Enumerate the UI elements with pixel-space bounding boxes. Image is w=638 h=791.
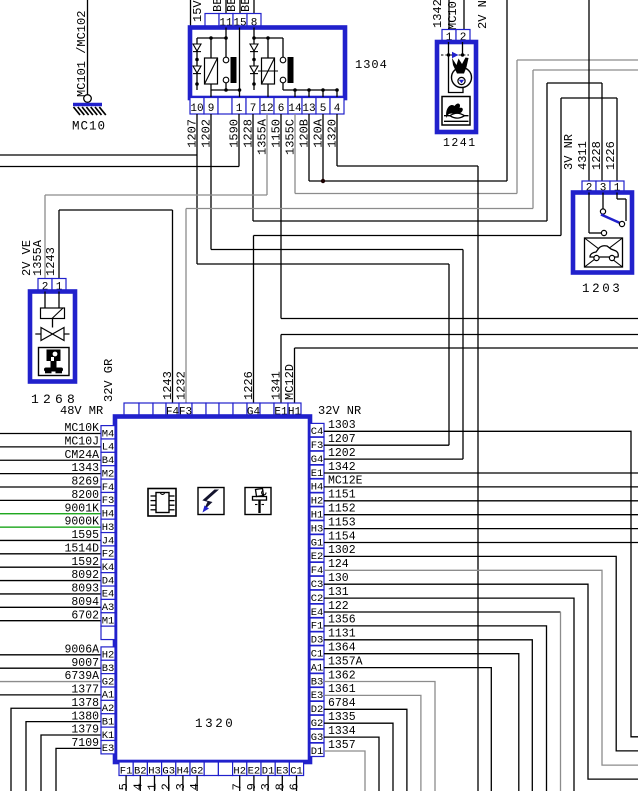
svg-text:MC10: MC10	[72, 120, 106, 134]
wire 8094 to pin A3	[0, 596, 115, 614]
wire 124 from pin F4	[310, 558, 638, 765]
ground label MC10	[72, 120, 106, 134]
label BB	[239, 0, 253, 12]
svg-text:9001K: 9001K	[64, 502, 99, 515]
svg-text:19: 19	[245, 783, 259, 791]
svg-text:14: 14	[188, 783, 202, 791]
svg-text:C1: C1	[311, 649, 324, 661]
wire labels 1207 1202 1590 1228 1355A 1150 1355C 120B 120A 1320	[186, 118, 340, 155]
ECU bottom empty pin slot	[218, 762, 232, 776]
svg-text:C4: C4	[311, 426, 324, 438]
svg-text:1592: 1592	[71, 556, 99, 569]
svg-text:13: 13	[302, 103, 315, 115]
wire 1357A from pin A1	[310, 655, 491, 791]
wire CM24A to pin B4	[0, 449, 115, 467]
ECU bottom empty pin slot	[204, 762, 218, 776]
svg-text:8093: 8093	[71, 583, 99, 596]
svg-text:6702: 6702	[71, 609, 99, 622]
junction 120A/120B	[321, 179, 325, 183]
svg-text:G4: G4	[311, 454, 324, 466]
wire 8200 to pin F3	[0, 489, 115, 507]
wire 1590 : 1304 pin1 to left edge	[0, 114, 239, 167]
svg-text:F1: F1	[311, 621, 324, 633]
wire 1355C (grey) : 1304 pin14 to right edge	[295, 60, 638, 194]
svg-text:14: 14	[288, 103, 302, 115]
1241 metering symbol with arrow	[441, 52, 469, 58]
wire 9007 to pin B3	[0, 657, 115, 675]
ground MC10 symbol	[73, 105, 106, 116]
relay 1 bottom bus	[211, 88, 241, 92]
svg-text:1362: 1362	[328, 669, 356, 682]
svg-text:1226: 1226	[242, 371, 256, 400]
svg-text:9000K: 9000K	[64, 516, 99, 529]
wire 1355A (grey) : 1304 pin12 to 1268 pin2	[45, 114, 267, 280]
labels 1342 MC10 above 1241	[431, 0, 460, 30]
wire 6702 to pin M1	[0, 609, 115, 627]
wire 8269 to pin F4	[0, 476, 115, 494]
wire 1334 from pin G3	[310, 725, 379, 791]
wire BB supply to pin 8	[253, 0, 255, 14]
svg-text:15V: 15V	[191, 0, 205, 22]
ECU bottom pin F1 with wire	[117, 762, 133, 791]
1268 coil symbol	[41, 292, 65, 319]
wire 1356 from pin F1	[310, 614, 547, 791]
wire 1150 : 1304 pin6 to right edge	[281, 114, 638, 319]
ECU bottom pin G2 with wire	[188, 762, 204, 791]
svg-text:1131: 1131	[328, 628, 356, 641]
svg-text:CM24A: CM24A	[64, 449, 99, 462]
wire 7109 to pin E3	[56, 737, 115, 791]
svg-text:1: 1	[236, 103, 243, 115]
wire 1341 : ECU E1 top to right edge	[281, 335, 638, 404]
label 32V NR	[318, 404, 361, 418]
wire 1378 to pin A2	[11, 697, 115, 791]
svg-text:MC101 /MC102: MC101 /MC102	[75, 11, 89, 97]
ECU bottom pin D1 with wire	[259, 762, 275, 791]
connector pins 10,9,1,7,12,6,14,13,5,4 of 1304	[190, 98, 344, 116]
svg-text:H1: H1	[311, 510, 324, 522]
wire 1207 : 1304 pin10 down, branch to left edge, to ECU F3 right row	[0, 114, 449, 445]
svg-text:1203: 1203	[582, 282, 622, 296]
wire 6739A to pin G2	[0, 670, 115, 688]
svg-text:C3: C3	[311, 579, 324, 591]
svg-text:9: 9	[208, 103, 215, 115]
svg-text:BB: BB	[225, 0, 239, 12]
ECU bottom pin E3 with wire	[273, 762, 289, 791]
ECU bottom pin H4 with wire	[174, 762, 190, 791]
svg-text:11: 11	[146, 783, 160, 791]
wire 1207 from pin F3	[310, 433, 449, 452]
label 48V MR	[60, 404, 103, 418]
wire 1152 from pin H1	[310, 503, 638, 522]
wire 1364 from pin C1	[310, 642, 519, 791]
ECU icon: ignition (lightning)	[198, 488, 224, 515]
wire 15V feed	[190, 0, 192, 29]
svg-text:C2: C2	[311, 593, 324, 605]
wire 1153 from pin H3	[310, 516, 638, 535]
wire 1377 to pin A1	[0, 684, 115, 702]
1241 pictogram (pump)	[442, 97, 470, 126]
svg-text:A1: A1	[311, 662, 324, 674]
svg-text:1341: 1341	[270, 371, 284, 400]
wire 1320 : 1304 pin4 down to bottom edge	[337, 114, 478, 791]
engine ECU 1320 frame	[115, 417, 310, 763]
svg-text:1202: 1202	[328, 447, 356, 460]
svg-text:4311: 4311	[576, 141, 590, 170]
wire 9000K to pin H3	[0, 516, 115, 534]
label 15V	[191, 0, 205, 22]
label 1241	[443, 137, 477, 150]
1268 pictogram	[39, 348, 70, 376]
wire MC101/MC102 to ground	[84, 0, 92, 102]
labels 2V VE 1355A 1243	[20, 239, 58, 276]
ECU bottom pin H3 with wire	[146, 762, 162, 791]
svg-text:1304: 1304	[355, 58, 388, 72]
svg-text:8200: 8200	[71, 489, 99, 502]
svg-text:1342: 1342	[431, 0, 445, 28]
ECU icon: microprocessor	[148, 489, 176, 517]
svg-text:1207: 1207	[328, 433, 356, 446]
wire 4311 : top edge to 1203 pin2	[588, 0, 590, 181]
wire 122 from pin E4	[310, 600, 561, 791]
1203 switch symbol	[589, 193, 626, 236]
wire labels 1243 1232 1226 1341 MC12D	[161, 364, 297, 400]
ECU bottom pin B2 with wire	[131, 762, 147, 791]
svg-text:BB: BB	[211, 0, 225, 12]
double relay unit 1304 frame	[190, 28, 345, 99]
svg-text:17: 17	[231, 783, 245, 791]
wire 1243 : 1268 pin1 to ECU F4 top	[59, 210, 173, 403]
wire 120B : 1304 pin13 battery feed	[309, 0, 507, 181]
svg-text:B3: B3	[311, 676, 324, 688]
label BB	[211, 0, 225, 12]
svg-text:14: 14	[131, 783, 145, 791]
relay 2 top bus	[252, 28, 283, 40]
wire 1202 from pin G4	[310, 447, 463, 466]
brake switch 1203 frame	[573, 193, 632, 273]
svg-text:BB: BB	[239, 0, 253, 12]
svg-text:1232: 1232	[175, 371, 189, 400]
svg-text:7: 7	[250, 103, 257, 115]
relay 1 contact	[223, 38, 236, 90]
svg-text:E3: E3	[311, 690, 324, 702]
relay 2 coil branch (diodes)	[250, 38, 258, 90]
connector pins 1,2 of 1241	[442, 30, 470, 45]
wire BB supply to pin 11	[225, 0, 227, 14]
wire 8093 to pin E4	[0, 583, 115, 601]
wire 1343 to pin M2	[0, 462, 115, 480]
svg-text:1226: 1226	[604, 141, 618, 170]
connector pins 2,3,1 of 1203	[582, 181, 624, 195]
svg-text:1364: 1364	[328, 642, 356, 655]
svg-text:MC10K: MC10K	[64, 422, 99, 435]
svg-text:D2: D2	[311, 704, 324, 716]
svg-text:1357A: 1357A	[328, 655, 363, 668]
wire 1592 to pin K4	[0, 556, 115, 574]
svg-text:1302: 1302	[328, 544, 356, 557]
ECU bottom pin G3 with wire	[160, 762, 176, 791]
svg-text:1356: 1356	[328, 614, 356, 627]
svg-text:1152: 1152	[328, 503, 356, 516]
wire MC10 to 1241 pin2	[463, 0, 465, 30]
svg-text:G3: G3	[311, 732, 324, 744]
svg-text:D1: D1	[311, 746, 324, 758]
svg-text:1303: 1303	[328, 419, 356, 432]
wire 1361 from pin E3	[310, 683, 421, 791]
svg-text:MC10J: MC10J	[64, 435, 99, 448]
svg-text:1228: 1228	[590, 141, 604, 170]
connector pins 2,1 of 1268	[38, 279, 66, 294]
fuel pump unit 1241 frame	[437, 42, 476, 132]
svg-text:1357: 1357	[328, 739, 356, 752]
label BB	[225, 0, 239, 12]
label 2V NR	[476, 0, 490, 29]
svg-text:1342: 1342	[328, 461, 356, 474]
ECU bottom pin C1 with wire	[288, 762, 304, 791]
wire 120A : 1304 pin5 joining 120B	[322, 114, 324, 181]
svg-text:131: 131	[328, 586, 349, 599]
svg-text:1151: 1151	[328, 489, 356, 502]
svg-text:1361: 1361	[328, 683, 356, 696]
wire 1226 : ECU G4 top to 1203 pin1	[254, 98, 618, 403]
wire 1232 (grey) : ECU F3 top to right edge	[186, 70, 638, 403]
wire 1302 from pin E2	[310, 544, 638, 751]
svg-text:9007: 9007	[71, 657, 99, 670]
label 1203	[582, 282, 622, 296]
svg-text:G1: G1	[311, 537, 324, 549]
wire 131 from pin C2	[310, 586, 574, 791]
label 3V NR	[562, 134, 576, 170]
svg-text:1243: 1243	[161, 371, 175, 400]
connector pins 11,15,8 of 1304	[205, 14, 261, 30]
svg-text:48V MR: 48V MR	[60, 404, 103, 418]
svg-text:1377: 1377	[71, 684, 99, 697]
wire 1342 to 1241 pin1	[448, 0, 450, 30]
1241 internal wires	[449, 42, 464, 93]
svg-text:2V NR: 2V NR	[476, 0, 490, 29]
svg-text:H3: H3	[311, 523, 324, 535]
svg-text:32V GR: 32V GR	[102, 359, 116, 402]
wire 1362 from pin B3	[310, 669, 435, 791]
wire 1380 to pin B1	[26, 710, 115, 791]
ECU left empty pin slot	[101, 626, 115, 639]
svg-text:MC12D: MC12D	[283, 364, 297, 400]
label 1320	[195, 717, 235, 731]
wire 1154 from pin G1	[310, 530, 638, 549]
labels 4311 1228 1226	[576, 141, 618, 170]
svg-text:15: 15	[117, 783, 131, 791]
wire 1303 from pin C4	[310, 419, 638, 737]
svg-text:1380: 1380	[71, 710, 99, 723]
relay 1 coil branch (diodes)	[193, 38, 201, 90]
wire MC12D : ECU H1 top to right edge	[295, 348, 638, 403]
wire 8092 to pin D4	[0, 569, 115, 587]
svg-text:1335: 1335	[328, 711, 356, 724]
svg-text:3V NR: 3V NR	[562, 134, 576, 170]
svg-text:13: 13	[259, 783, 273, 791]
ECU bottom pin H2 with wire	[231, 762, 247, 791]
svg-text:7109: 7109	[71, 737, 99, 750]
svg-text:6739A: 6739A	[64, 670, 99, 683]
svg-text:12: 12	[260, 103, 273, 115]
svg-text:18: 18	[273, 783, 287, 791]
wire BB supply to pin 15	[239, 0, 241, 14]
svg-text:1355A: 1355A	[31, 239, 45, 276]
svg-text:122: 122	[328, 600, 349, 613]
ECU icon: injection	[245, 488, 271, 515]
1268 valve symbol	[35, 319, 69, 341]
relay 2 contact	[280, 38, 293, 90]
svg-text:8094: 8094	[71, 596, 99, 609]
wire 1342 from pin E1	[310, 461, 638, 480]
wire pin15 to pin1 through 1304	[239, 28, 241, 98]
svg-text:32V NR: 32V NR	[318, 404, 361, 418]
wire 1357 from pin D1	[310, 739, 365, 791]
svg-text:124: 124	[328, 558, 349, 571]
svg-text:12: 12	[160, 783, 174, 791]
1241 injector spray symbol	[452, 58, 472, 88]
svg-text:F3: F3	[311, 440, 324, 452]
svg-text:1153: 1153	[328, 516, 356, 529]
svg-text:MC12E: MC12E	[328, 475, 363, 488]
svg-text:5: 5	[320, 103, 327, 115]
svg-text:1379: 1379	[71, 724, 99, 737]
svg-text:13: 13	[174, 783, 188, 791]
wire 9001K to pin H4	[0, 502, 115, 520]
svg-text:130: 130	[328, 572, 349, 585]
canister purge valve 1268 frame	[30, 292, 75, 382]
svg-text:10: 10	[190, 103, 203, 115]
wire 1131 from pin D3	[310, 628, 532, 791]
wire 130 from pin C3	[310, 572, 638, 779]
svg-text:1334: 1334	[328, 725, 356, 738]
ECU top connector pins F4 F3 G4 E1 H1	[124, 403, 301, 419]
svg-text:6784: 6784	[328, 697, 356, 710]
svg-text:1154: 1154	[328, 530, 356, 543]
wire 1379 to pin K1	[41, 724, 115, 791]
wire 6784 from pin D2	[310, 697, 407, 791]
relay 1 coil	[205, 38, 218, 97]
wire 1595 to pin J4	[0, 529, 115, 547]
svg-text:8092: 8092	[71, 569, 99, 582]
svg-text:F4: F4	[311, 565, 324, 577]
svg-text:E2: E2	[311, 551, 324, 563]
wire MC10J to pin L4	[0, 435, 115, 453]
wire 9006A to pin H2	[0, 643, 115, 661]
svg-text:6: 6	[278, 103, 285, 115]
wire 1335 from pin G2	[310, 711, 393, 791]
svg-text:4: 4	[334, 103, 341, 115]
svg-text:16: 16	[288, 783, 302, 791]
svg-text:1514D: 1514D	[64, 542, 99, 555]
svg-text:E1: E1	[311, 468, 324, 480]
wire 1514D to pin F2	[0, 542, 115, 560]
svg-text:E3: E3	[102, 743, 115, 755]
label MC101 /MC102	[75, 11, 89, 97]
svg-text:E4: E4	[311, 607, 324, 619]
svg-text:9006A: 9006A	[64, 643, 99, 656]
wire 1151 from pin H2	[310, 489, 638, 508]
relay 1 top bus	[197, 28, 228, 40]
ECU bottom pin E2 with wire	[245, 762, 261, 791]
svg-text:1241: 1241	[443, 137, 477, 150]
wire 1228 : 1304 pin7 to 1203 pin3	[253, 83, 602, 221]
svg-text:1595: 1595	[71, 529, 99, 542]
svg-text:1243: 1243	[44, 247, 58, 276]
1203 pictogram (vehicle)	[585, 238, 623, 267]
svg-text:MC10: MC10	[446, 1, 460, 30]
wire MC12E from pin H4	[310, 475, 638, 494]
svg-text:8269: 8269	[71, 476, 99, 489]
svg-text:D3: D3	[311, 635, 324, 647]
wire 1202 : 1304 pin9 to ECU G4 right row	[211, 114, 463, 459]
label 32V GR	[102, 359, 116, 402]
wire MC10K to pin M4	[0, 422, 115, 440]
label 1268	[31, 392, 79, 407]
svg-text:1343: 1343	[71, 462, 99, 475]
label 1304	[355, 58, 388, 72]
relay 2 coil (double winding)	[258, 38, 278, 97]
svg-text:G2: G2	[311, 718, 324, 730]
svg-text:H4: H4	[311, 482, 324, 494]
relay 2 bottom bus	[283, 88, 339, 97]
svg-text:1320: 1320	[195, 717, 235, 731]
svg-text:H2: H2	[311, 496, 324, 508]
svg-text:1378: 1378	[71, 697, 99, 710]
